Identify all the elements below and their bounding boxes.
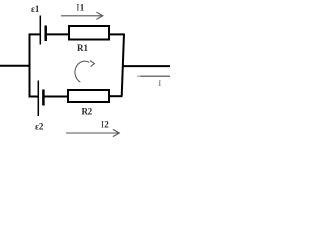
wire R1 to top-right corner [110, 33, 125, 35]
arrow I1 [61, 12, 103, 19]
wire top-left to battery e1 [29, 33, 41, 35]
svg-text:I1: I1 [76, 3, 84, 13]
battery E2 short plate [42, 90, 45, 106]
arrow I2 [66, 129, 119, 136]
arrow I (external current, pointing left) [137, 75, 170, 77]
wire R2 to bottom-right corner [110, 95, 123, 97]
svg-text:R1: R1 [77, 43, 88, 53]
wire bottom-left to battery e2 [29, 96, 39, 98]
wire battery e2 to R2 [45, 96, 69, 98]
battery E2 long plate [37, 81, 39, 117]
battery E1 short plate [44, 26, 47, 42]
svg-text:R2: R2 [82, 107, 93, 117]
svg-text:I2: I2 [101, 120, 109, 130]
wire left external lead [0, 65, 30, 67]
loop direction arrow (clockwise) [75, 61, 94, 83]
wire right branch (slightly slanted) [122, 34, 124, 97]
wire left branch vertical [29, 34, 31, 98]
wire battery e1 to R1 [47, 33, 70, 35]
battery E1 long plate [39, 16, 41, 45]
svg-text:ε2: ε2 [35, 122, 44, 132]
wire right external lead [122, 65, 170, 67]
resistor R1 [69, 26, 109, 40]
resistor R2 [68, 90, 109, 102]
svg-text:I: I [158, 78, 161, 88]
svg-text:ε1: ε1 [31, 4, 40, 14]
